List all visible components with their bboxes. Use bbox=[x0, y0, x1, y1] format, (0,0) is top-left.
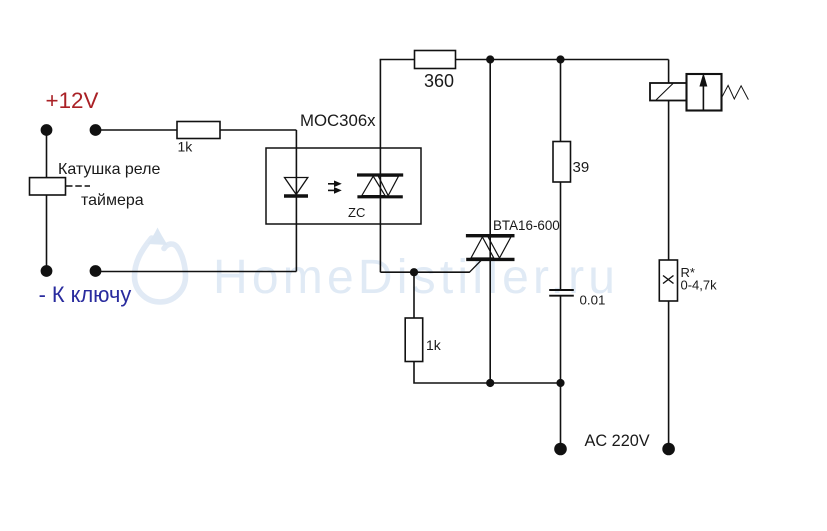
transistor Q1 BTA16-600 triac bbox=[466, 236, 515, 273]
svg-text:таймера: таймера bbox=[81, 192, 144, 209]
svg-text:AC 220V: AC 220V bbox=[585, 432, 650, 450]
terminal +12V left bbox=[41, 124, 53, 136]
terminal AC right bbox=[662, 443, 675, 456]
svg-text:MOC306x: MOC306x bbox=[300, 111, 376, 130]
relay coil dashed link bbox=[66, 185, 90, 187]
wire bottom rail to AC terminal bbox=[560, 383, 562, 449]
relay coil Катушка реле таймера bbox=[30, 178, 66, 195]
op-amp U1 MOC306x box bbox=[266, 148, 421, 224]
wire right branch vertical top bbox=[668, 60, 670, 84]
valve body bbox=[687, 74, 722, 111]
LED D1 in U1 bbox=[284, 178, 308, 197]
solenoid coil Y1 bbox=[650, 83, 687, 101]
terminal key left bbox=[41, 265, 53, 277]
wire snubber top bbox=[560, 60, 562, 142]
wire R3 to bottom rail bbox=[414, 362, 561, 384]
svg-text:+12V: +12V bbox=[46, 88, 99, 113]
wire R1 to opto LED bbox=[220, 129, 296, 131]
wire right branch vertical mid bbox=[668, 101, 670, 261]
wire opto triac vertical bbox=[379, 60, 381, 273]
valve return spring bbox=[722, 85, 749, 99]
node bottom B1 bbox=[556, 379, 564, 387]
terminal AC left bbox=[554, 443, 567, 456]
svg-text:- К ключу: - К ключу bbox=[39, 282, 132, 307]
svg-text:1k: 1k bbox=[426, 337, 442, 353]
wire node to R3 bbox=[413, 272, 415, 318]
terminal key right bbox=[90, 265, 102, 277]
resistor R4 39 bbox=[553, 142, 571, 183]
node bottom A1 bbox=[486, 379, 494, 387]
svg-text:BTA16-600: BTA16-600 bbox=[493, 218, 560, 233]
solenoid coil diagonal bbox=[656, 84, 673, 101]
resistor R5 R* box bbox=[659, 260, 677, 301]
svg-text:ZC: ZC bbox=[348, 205, 365, 220]
svg-text:0-4,7k: 0-4,7k bbox=[681, 278, 718, 293]
resistor R3 1k bbox=[405, 318, 423, 362]
resistor R1 1k bbox=[177, 122, 220, 139]
svg-text:Катушка реле: Катушка реле bbox=[58, 161, 161, 178]
triac in U1 bbox=[357, 175, 403, 197]
wire opto to gate rail bbox=[380, 271, 469, 273]
node gate bbox=[410, 268, 418, 276]
R* X mark bbox=[663, 276, 674, 284]
wire C1 to bottom rail bbox=[560, 296, 562, 383]
wire top from opto to R2 bbox=[380, 59, 415, 61]
svg-text:39: 39 bbox=[573, 159, 590, 176]
wire BTA main vertical bbox=[489, 60, 491, 384]
wire LED vertical bbox=[295, 130, 297, 272]
light arrows bbox=[328, 181, 341, 193]
valve flow arrow bbox=[700, 75, 707, 111]
svg-text:1k: 1k bbox=[178, 139, 194, 155]
wire LED return to terminal bbox=[96, 271, 297, 273]
svg-text:360: 360 bbox=[424, 71, 454, 91]
wire +12V to R1 bbox=[96, 129, 178, 131]
wire relay branch vertical bbox=[46, 130, 48, 271]
watermark logo drop bbox=[135, 228, 186, 303]
node top A bbox=[486, 55, 494, 63]
wire top rail bbox=[456, 59, 669, 61]
node top B bbox=[556, 55, 564, 63]
terminal +12V right bbox=[90, 124, 102, 136]
capacitor C1 0.01 bbox=[549, 290, 574, 296]
svg-text:0.01: 0.01 bbox=[580, 293, 606, 308]
wire R4 to C1 bbox=[560, 182, 562, 290]
resistor R2 360 bbox=[415, 51, 456, 69]
wire R* to AC terminal bbox=[668, 301, 670, 449]
